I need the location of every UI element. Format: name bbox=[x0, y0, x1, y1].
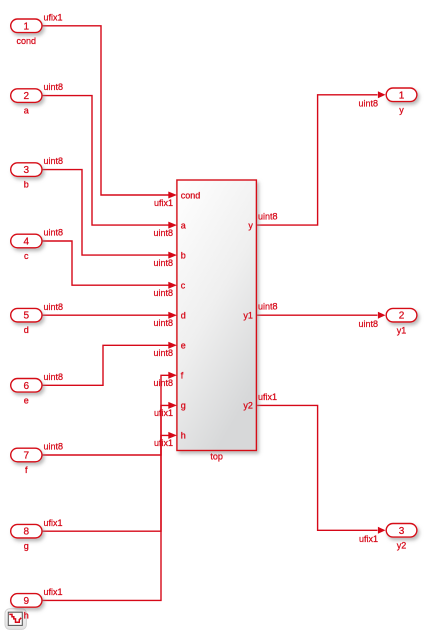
inport 2 bbox=[11, 89, 42, 116]
signal label uint8 at inport4 bbox=[44, 228, 64, 238]
arrowhead into c bbox=[168, 282, 177, 289]
wire y: subsystem to outport1 bbox=[256, 95, 377, 225]
svg-text:g: g bbox=[181, 401, 186, 411]
svg-text:ufix1: ufix1 bbox=[359, 534, 378, 544]
svg-text:7: 7 bbox=[24, 451, 30, 462]
signal label uint8 at subsystem f input bbox=[153, 378, 173, 388]
inport 4 bbox=[11, 234, 42, 261]
outport 3 bbox=[386, 524, 417, 551]
wire f: inport7 to subsystem bbox=[42, 375, 169, 455]
svg-text:uint8: uint8 bbox=[44, 302, 64, 312]
svg-text:ufix1: ufix1 bbox=[154, 198, 173, 208]
svg-text:cond: cond bbox=[181, 190, 201, 200]
arrowhead into outport1 bbox=[378, 91, 386, 98]
svg-text:ufix1: ufix1 bbox=[154, 408, 173, 418]
wire cond: inport1 to subsystem bbox=[42, 26, 169, 195]
wire g: inport8 to subsystem bbox=[42, 405, 169, 531]
signal label ufix1 at subsystem g input bbox=[154, 408, 173, 418]
signal label uint8 at subsystem b input bbox=[153, 258, 173, 268]
svg-text:uint8: uint8 bbox=[153, 378, 173, 388]
svg-text:5: 5 bbox=[24, 311, 30, 322]
arrowhead into e bbox=[168, 342, 177, 349]
svg-text:9: 9 bbox=[24, 596, 30, 607]
viewer badge icon bbox=[5, 609, 26, 630]
svg-text:uint8: uint8 bbox=[258, 302, 278, 312]
signal label uint8 at subsystem y1 output bbox=[258, 302, 278, 312]
signal label ufix1 at outport3 bbox=[359, 534, 378, 544]
svg-text:uint8: uint8 bbox=[153, 258, 173, 268]
svg-text:uint8: uint8 bbox=[44, 442, 64, 452]
signal label ufix1 at inport9 bbox=[44, 587, 63, 597]
outport 1 bbox=[386, 88, 417, 115]
arrowhead into d bbox=[168, 312, 177, 319]
wire d: inport5 to subsystem bbox=[42, 314, 169, 316]
signal label uint8 at subsystem e input bbox=[153, 348, 173, 358]
svg-text:uint8: uint8 bbox=[258, 212, 278, 222]
svg-text:d: d bbox=[181, 311, 186, 321]
svg-text:c: c bbox=[24, 251, 29, 261]
svg-text:uint8: uint8 bbox=[153, 348, 173, 358]
svg-text:uint8: uint8 bbox=[153, 228, 173, 238]
wire e: inport6 to subsystem bbox=[42, 345, 169, 385]
signal label uint8 at subsystem y output bbox=[258, 212, 278, 222]
inport 1 bbox=[11, 19, 42, 46]
arrowhead into g bbox=[168, 402, 177, 409]
svg-text:uint8: uint8 bbox=[44, 156, 64, 166]
inport 6 bbox=[11, 379, 42, 406]
svg-text:ufix1: ufix1 bbox=[44, 587, 63, 597]
svg-text:uint8: uint8 bbox=[44, 228, 64, 238]
svg-text:ufix1: ufix1 bbox=[258, 392, 277, 402]
svg-text:uint8: uint8 bbox=[44, 372, 64, 382]
svg-text:cond: cond bbox=[17, 36, 37, 46]
wire a: inport2 to subsystem bbox=[42, 96, 169, 226]
svg-text:d: d bbox=[24, 325, 29, 335]
svg-text:3: 3 bbox=[24, 165, 30, 176]
svg-text:uint8: uint8 bbox=[153, 318, 173, 328]
svg-text:uint8: uint8 bbox=[358, 319, 378, 329]
signal label ufix1 at inport8 bbox=[44, 518, 63, 528]
arrowhead into a bbox=[168, 222, 177, 229]
signal label uint8 at subsystem c input bbox=[153, 288, 173, 298]
wire b: inport3 to subsystem bbox=[42, 170, 169, 256]
svg-text:c: c bbox=[181, 281, 186, 291]
svg-text:y1: y1 bbox=[397, 326, 407, 336]
signal label uint8 at inport7 bbox=[44, 442, 64, 452]
wire y2: subsystem to outport3 bbox=[256, 405, 377, 530]
wire h: inport9 to subsystem bbox=[42, 435, 169, 600]
svg-text:a: a bbox=[24, 106, 29, 116]
svg-text:1: 1 bbox=[24, 21, 30, 32]
inport 3 bbox=[11, 163, 42, 190]
signal label uint8 at outport1 bbox=[358, 99, 378, 109]
arrowhead into b bbox=[168, 252, 177, 259]
svg-text:e: e bbox=[181, 341, 186, 351]
signal label uint8 at inport5 bbox=[44, 302, 64, 312]
svg-text:4: 4 bbox=[24, 237, 30, 248]
inport 5 bbox=[11, 308, 42, 335]
inport 8 bbox=[11, 524, 42, 551]
arrowhead into outport2 bbox=[378, 312, 386, 319]
svg-text:8: 8 bbox=[24, 527, 30, 538]
arrowhead into outport3 bbox=[378, 527, 386, 534]
svg-text:uint8: uint8 bbox=[358, 99, 378, 109]
signal label ufix1 at subsystem y2 output bbox=[258, 392, 277, 402]
svg-text:h: h bbox=[181, 431, 186, 441]
arrowhead into cond bbox=[168, 192, 177, 199]
svg-text:a: a bbox=[181, 220, 186, 230]
arrowhead into h bbox=[168, 432, 177, 439]
svg-text:ufix1: ufix1 bbox=[154, 438, 173, 448]
signal label uint8 at subsystem a input bbox=[153, 228, 173, 238]
svg-text:1: 1 bbox=[399, 90, 405, 101]
subsystem output port labels bbox=[243, 220, 253, 410]
signal label uint8 at outport2 bbox=[358, 319, 378, 329]
svg-text:y: y bbox=[248, 220, 253, 230]
inport 7 bbox=[11, 448, 42, 475]
svg-text:g: g bbox=[24, 541, 29, 551]
wire c: inport4 to subsystem bbox=[42, 241, 169, 285]
svg-text:top: top bbox=[210, 452, 223, 462]
svg-text:e: e bbox=[24, 395, 29, 405]
svg-text:3: 3 bbox=[399, 526, 405, 537]
svg-text:uint8: uint8 bbox=[153, 288, 173, 298]
svg-text:2: 2 bbox=[24, 91, 30, 102]
inport 9 bbox=[11, 594, 42, 621]
subsystem top bbox=[177, 180, 257, 462]
outport 2 bbox=[386, 308, 417, 335]
signal label ufix1 at inport1 bbox=[44, 12, 63, 22]
svg-text:y2: y2 bbox=[397, 541, 407, 551]
svg-text:ufix1: ufix1 bbox=[44, 12, 63, 22]
svg-text:uint8: uint8 bbox=[44, 82, 64, 92]
svg-text:f: f bbox=[25, 465, 28, 475]
svg-text:y2: y2 bbox=[243, 401, 253, 411]
svg-text:y: y bbox=[399, 105, 404, 115]
svg-text:6: 6 bbox=[24, 381, 30, 392]
arrowhead into f bbox=[168, 372, 177, 379]
svg-text:b: b bbox=[24, 180, 29, 190]
svg-text:y1: y1 bbox=[243, 311, 253, 321]
signal label ufix1 at subsystem cond input bbox=[154, 198, 173, 208]
signal label uint8 at inport2 bbox=[44, 82, 64, 92]
signal label uint8 at inport3 bbox=[44, 156, 64, 166]
svg-text:h: h bbox=[24, 610, 29, 620]
wire y1: subsystem to outport2 bbox=[256, 314, 377, 316]
signal label uint8 at subsystem d input bbox=[153, 318, 173, 328]
signal label ufix1 at subsystem h input bbox=[154, 438, 173, 448]
svg-text:2: 2 bbox=[399, 311, 405, 322]
svg-text:b: b bbox=[181, 250, 186, 260]
svg-text:ufix1: ufix1 bbox=[44, 518, 63, 528]
signal label uint8 at inport6 bbox=[44, 372, 64, 382]
subsystem input port labels bbox=[181, 190, 201, 440]
